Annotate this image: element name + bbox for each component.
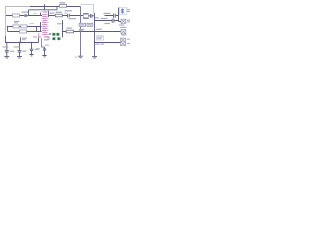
label C3 [35,49,39,50]
green net labels row1 [52,33,59,36]
resistor R5 [20,30,27,33]
resistor R7 [66,30,73,33]
connector SV1 bottom row (pink) [33,33,49,37]
terminal X1-2 [121,30,126,34]
node [94,42,95,43]
ground C8 [42,56,46,57]
label above X1-2 [120,27,126,28]
wire mid-left row A [8,26,42,28]
label under bottom right wire [95,44,104,45]
wire mid horizontal [63,31,121,33]
wire from connector bottom [38,38,40,43]
node junction top [44,6,45,7]
label left mid [14,21,20,24]
wire right row2 [95,20,119,22]
label under C4 [69,18,77,19]
label under S1 [79,29,85,31]
label C8 [36,45,49,50]
resistor R2 left [13,14,20,17]
label near stub [22,38,27,41]
label right of X2 [127,39,130,45]
wire second top [29,4,58,15]
capacitor C5 [89,14,95,18]
label left of wire mid [96,29,102,30]
wire vertical bus left-center [62,20,64,38]
node [62,23,63,24]
wire riser left [8,27,42,32]
label above right row1 [104,13,111,14]
crystal Q1 [83,13,88,18]
node junctions bottom [6,42,7,43]
switch S2 box [87,23,93,26]
ground C3 [29,55,33,56]
label under green [48,39,51,40]
wire left input row [6,15,42,17]
resistor R6 [55,14,62,17]
diode D1 [24,14,27,16]
wire right vertical bus [119,8,122,22]
capacitor C4 plates [68,14,70,18]
label bottom middle tiny [75,57,78,58]
capacitor C8 riser [42,38,47,55]
label left of node [57,23,61,24]
green net labels row2 [52,37,60,40]
label tan small 2 [33,13,37,14]
wire vertical x80 [80,7,82,56]
wire stub with label [20,37,22,42]
label right of X1-1 [127,20,130,23]
ground C2 [17,56,22,58]
frame (left sheet outline, faint) [6,7,31,37]
connector SV1 body edge [48,11,50,17]
ground x80 [78,56,83,58]
capacitor C6 plates [114,14,116,18]
diode D2 (blue) [121,8,124,13]
label above R7 [66,28,72,29]
label GND small [44,37,50,41]
plus sign [65,12,67,15]
ground x94 [92,56,97,58]
capacitor C7 plates [112,19,114,23]
relay K1 inner text [97,37,102,40]
node [7,26,8,27]
label right of D2 [127,9,130,12]
terminal X2-2 [121,42,126,46]
label above R6 [56,12,62,13]
label right of C5 [95,17,99,18]
capacitor C2 [17,43,21,57]
wire IC out row [49,15,83,17]
terminal X1-1 [121,19,126,23]
label below right row2 [105,23,111,24]
wire right row1 [105,15,119,17]
label net left of green [49,33,51,34]
wire stub vertical [36,27,38,32]
label tan small [30,23,35,24]
label C2 [14,46,27,51]
label under R1 [65,10,73,11]
label above right row2 [101,18,108,19]
wire pin stub [40,13,42,32]
node [62,31,63,32]
terminal X2-1 [121,38,126,42]
label above diode [22,12,29,13]
label C1 [3,46,15,51]
label under X1-2 [121,34,126,35]
relay K1 faint box [97,36,104,40]
wire vertical x94 [94,13,96,56]
wire bottom right [95,42,121,44]
capacitor C3 [30,43,34,55]
resistor R1 top [60,5,67,8]
ground C1 [4,56,9,58]
resistor R3 [13,25,19,28]
diode D2 faint box [119,7,126,14]
connector SV1 pin labels (pink column) [42,11,48,35]
label IC1 [50,13,55,14]
wire top bus [30,6,81,8]
frame (top-right module box, faint) [81,5,94,14]
label R1 value [60,2,66,3]
capacitor C1 [5,43,9,57]
resistor R4 [21,25,27,28]
switch S1 box [79,23,85,26]
label under X1-1 [119,25,124,26]
wire bottom-left bus [6,36,39,43]
